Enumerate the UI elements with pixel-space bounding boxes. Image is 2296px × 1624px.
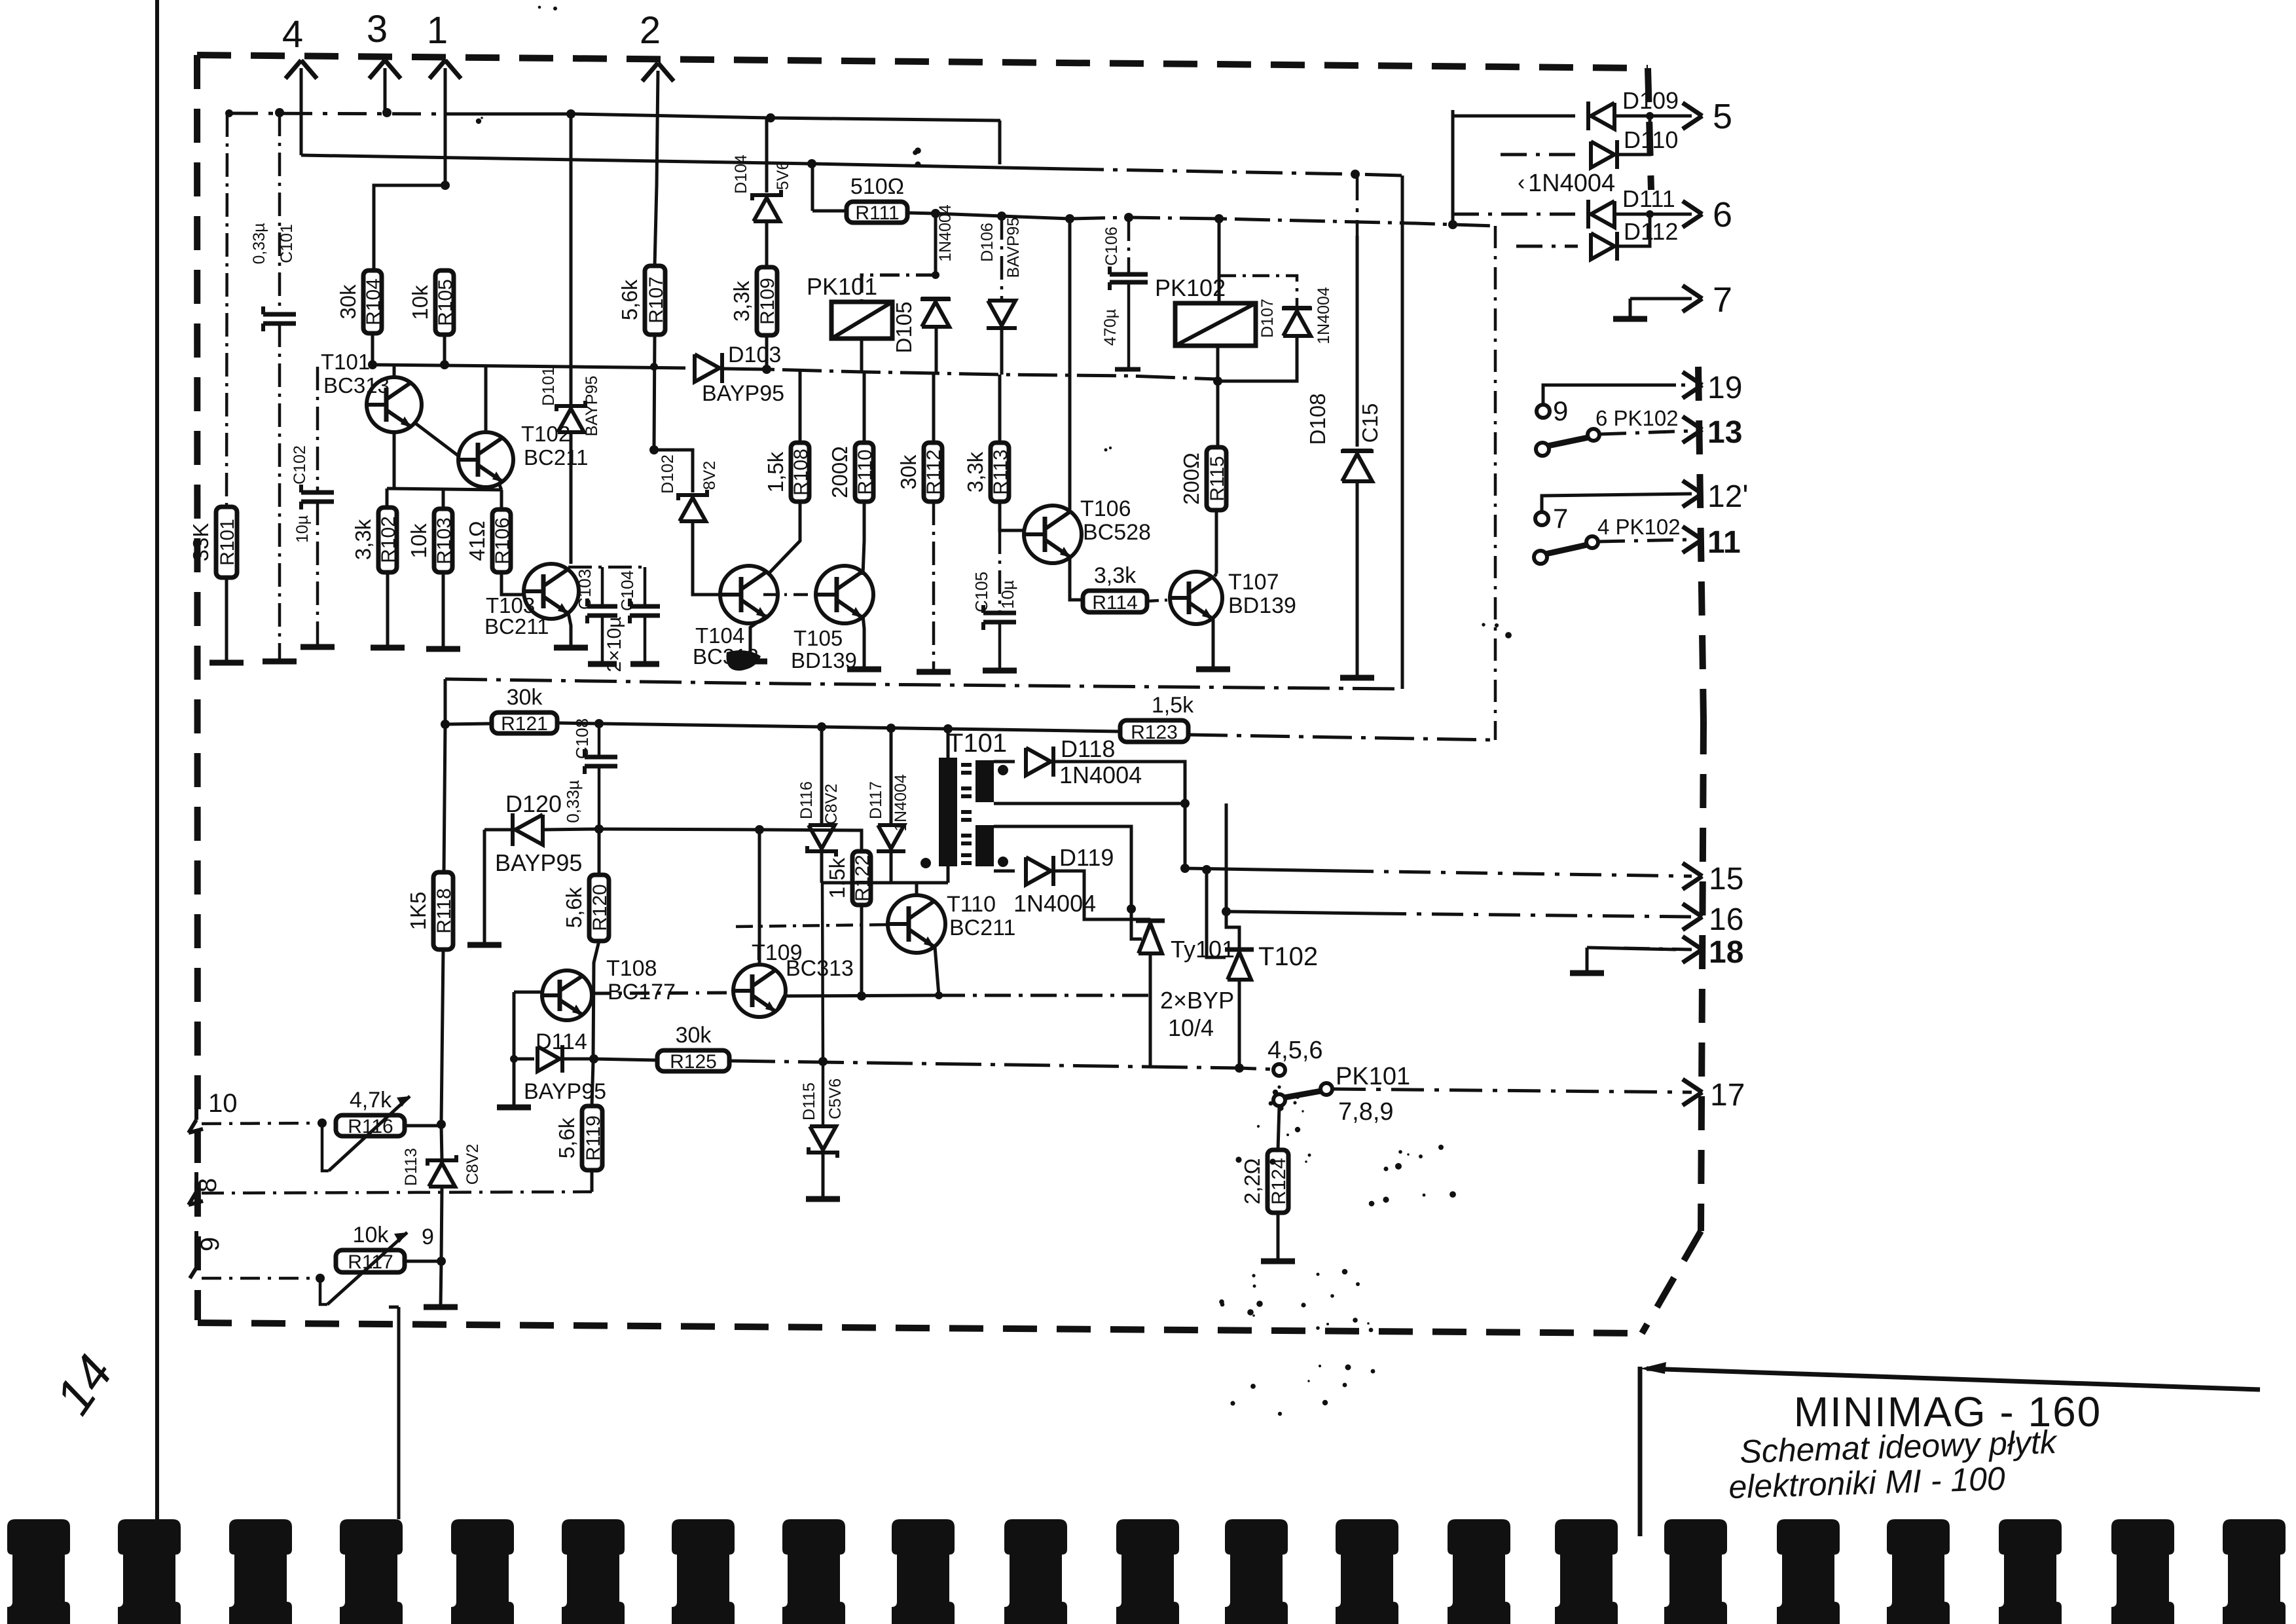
svg-text:C104: C104 <box>617 570 637 611</box>
wire T107 emitter <box>1212 618 1215 668</box>
wire H2 left <box>229 113 445 114</box>
wire D109 anode <box>1453 115 1575 118</box>
wire pin10 <box>202 1123 322 1124</box>
svg-text:D119: D119 <box>1059 844 1114 871</box>
wire base rail <box>387 489 501 490</box>
node R111 riser <box>807 159 816 168</box>
arrow pin17 <box>1683 1079 1702 1092</box>
wire T104 collector <box>767 502 800 575</box>
arrow pin15 <box>1683 863 1702 876</box>
svg-text:T105: T105 <box>793 626 843 650</box>
wire H5 dd <box>1070 217 1495 226</box>
svg-text:3,3k: 3,3k <box>963 451 987 492</box>
svg-text:‹: ‹ <box>1518 170 1525 195</box>
svg-text:6: 6 <box>1713 195 1732 234</box>
ground R124 <box>1261 1259 1295 1264</box>
wire R113 top <box>998 375 1002 443</box>
svg-text:30k: 30k <box>896 454 920 490</box>
wire Ty101 cathode <box>1149 953 1152 1068</box>
wire T102 cathode <box>1238 980 1241 1068</box>
svg-text:1: 1 <box>427 9 448 52</box>
ground C101 <box>263 659 297 665</box>
svg-text:5: 5 <box>1713 97 1732 136</box>
svg-text:D117: D117 <box>867 781 885 819</box>
resistor R113 <box>991 443 1009 502</box>
wire D118 out <box>1054 762 1185 868</box>
wire R101 gnd <box>225 578 228 661</box>
wire R102 top <box>386 489 389 507</box>
svg-text:3,3k: 3,3k <box>1094 563 1137 588</box>
zener D115 <box>810 1126 836 1150</box>
wire D101 column <box>570 114 573 406</box>
node D118 sec join <box>1180 799 1190 808</box>
svg-text:BC528: BC528 <box>1083 520 1151 545</box>
svg-text:BD139: BD139 <box>791 648 857 673</box>
capacitor C101 <box>263 312 296 317</box>
svg-text:6 PK102: 6 PK102 <box>1595 406 1679 430</box>
svg-text:D101: D101 <box>539 367 558 406</box>
resistor R122 <box>852 851 871 905</box>
svg-text:C15: C15 <box>1358 403 1382 443</box>
transistor T110 <box>888 895 945 953</box>
node D101 tap <box>566 109 575 119</box>
wire T101-T102 link <box>415 423 458 456</box>
node PK102 tap <box>1214 214 1224 223</box>
svg-text:R107: R107 <box>646 276 667 323</box>
wire D106 column <box>1000 216 1004 300</box>
wire T101 base drop <box>393 432 396 489</box>
svg-text:BAYP95: BAYP95 <box>702 381 784 406</box>
svg-text:PK101: PK101 <box>807 273 877 300</box>
diode D117 <box>878 825 904 849</box>
svg-text:0,33µ: 0,33µ <box>563 780 583 823</box>
wire pin15 <box>1185 868 1342 871</box>
svg-text:10µ: 10µ <box>293 515 312 543</box>
svg-text:3,3k: 3,3k <box>729 280 754 322</box>
resistor R125 <box>657 1050 729 1071</box>
ground C102 <box>301 644 335 650</box>
svg-text:R124: R124 <box>1268 1158 1290 1205</box>
svg-text:R108: R108 <box>790 449 812 496</box>
arrow pin16 <box>1683 904 1702 917</box>
polarity dot primary <box>920 858 931 868</box>
svg-text:5V6: 5V6 <box>774 161 792 190</box>
svg-text:15: 15 <box>1709 862 1743 896</box>
node T110 emitter <box>935 991 943 999</box>
diode D111 <box>1591 201 1614 227</box>
svg-text:R115: R115 <box>1207 456 1228 502</box>
ground T107 <box>1196 667 1230 673</box>
wire D110 anode <box>1501 153 1578 157</box>
ground R101 <box>210 660 244 666</box>
wire primary top <box>947 729 950 758</box>
svg-text:18: 18 <box>1709 935 1743 970</box>
node pin6 <box>1646 210 1654 218</box>
switch PK102-11 <box>1534 551 1547 564</box>
svg-text:33K: 33K <box>189 523 213 562</box>
wire D119 out <box>1054 871 1150 919</box>
node D105 tap <box>931 209 940 218</box>
node pin1-R104 <box>441 181 450 190</box>
svg-text:C105: C105 <box>972 572 991 612</box>
svg-text:9: 9 <box>1553 396 1568 426</box>
polarity dot lower <box>998 857 1008 867</box>
wire pin4 <box>300 68 303 155</box>
svg-text:T110: T110 <box>947 892 996 917</box>
wire pin7 <box>1630 297 1692 301</box>
arrow pin7 <box>1683 286 1702 299</box>
zener D104 <box>754 198 780 221</box>
resistor R101 <box>216 507 237 578</box>
svg-text:R120: R120 <box>589 884 611 931</box>
svg-text:8V2: 8V2 <box>701 461 719 490</box>
svg-text:3: 3 <box>367 8 388 50</box>
ground D113 <box>424 1304 458 1310</box>
wire R121 left <box>445 724 492 724</box>
ground T103 <box>554 645 588 651</box>
wire pin5 <box>1616 115 1692 118</box>
svg-text:12': 12' <box>1707 479 1749 514</box>
svg-text:10k: 10k <box>407 523 431 559</box>
wire H2 right <box>445 114 1000 120</box>
wire pin9 <box>202 1277 320 1280</box>
node T106 tap <box>1065 214 1074 223</box>
transistor T102 <box>458 432 513 487</box>
wire D113 bottom <box>441 1187 442 1260</box>
wire C108 drop <box>598 724 601 757</box>
resistor R112 <box>924 443 942 502</box>
ground D114 <box>497 1105 531 1111</box>
svg-text:7: 7 <box>1553 503 1568 534</box>
svg-text:BC313: BC313 <box>786 956 854 981</box>
svg-text:C108: C108 <box>572 718 592 759</box>
svg-text:D116: D116 <box>797 781 816 819</box>
svg-text:2: 2 <box>640 9 661 52</box>
border bottom <box>198 1323 1642 1333</box>
capacitor C108 <box>585 755 617 760</box>
svg-text:0,33µ: 0,33µ <box>250 223 268 264</box>
wire D106 bottom <box>1000 329 1004 375</box>
wire R124 gnd <box>1277 1213 1280 1260</box>
arrow pin13 <box>1683 416 1702 430</box>
zener D101 <box>558 409 584 432</box>
wire T105 collector <box>863 502 864 575</box>
svg-text:BD139: BD139 <box>1228 593 1296 618</box>
svg-text:R119: R119 <box>583 1115 604 1161</box>
svg-text:10µ: 10µ <box>998 580 1017 609</box>
node R116-R118 <box>437 1120 446 1129</box>
wire pin1 <box>444 68 447 185</box>
svg-text:4: 4 <box>282 13 303 56</box>
arrow pin5 <box>1683 103 1702 116</box>
wire secondary gather <box>822 881 948 885</box>
resistor R121 <box>492 712 557 733</box>
svg-text:1,5k: 1,5k <box>763 451 788 492</box>
svg-text:R106: R106 <box>492 517 513 564</box>
ground R112 <box>917 669 951 675</box>
wire T106 emitter <box>1070 558 1083 600</box>
wire D104-R109 <box>765 221 769 267</box>
svg-text:T102: T102 <box>1258 942 1318 971</box>
wire R119 top <box>592 1061 593 1106</box>
transistor T109 <box>733 965 786 1017</box>
wire R103 top <box>442 490 445 509</box>
smudge T104 <box>726 650 761 671</box>
pin 4 arrow <box>285 60 301 79</box>
film sprockets <box>7 1519 70 1624</box>
wire R107 bottom <box>654 335 655 449</box>
arrow pin12 <box>1683 481 1702 494</box>
resistor R124 <box>1267 1150 1288 1213</box>
resistor R105 <box>435 270 454 335</box>
svg-text:R125: R125 <box>670 1051 717 1073</box>
node pin5 <box>1646 112 1654 120</box>
svg-text:1N4004: 1N4004 <box>1315 287 1333 344</box>
wire pin13 <box>1600 431 1692 434</box>
wire R106 top <box>500 490 503 509</box>
svg-text:1N4004: 1N4004 <box>1528 170 1615 197</box>
polarity dot upper <box>998 765 1008 775</box>
wire R112 top <box>932 373 936 443</box>
wire D108 column <box>1356 174 1359 236</box>
ground pin7 <box>1613 316 1647 322</box>
svg-text:T108: T108 <box>606 956 657 981</box>
svg-text:D105: D105 <box>892 302 916 354</box>
wire Ty gate <box>1131 909 1142 939</box>
wire C102 gnd <box>316 502 319 646</box>
wire D105 column <box>934 213 938 275</box>
arrow pin6 <box>1683 201 1702 214</box>
resistor R111 <box>847 202 907 223</box>
diode D114 <box>538 1046 560 1071</box>
node Ty gate col <box>1127 904 1136 913</box>
node D114 out <box>589 1054 598 1063</box>
svg-text:4,7k: 4,7k <box>350 1088 392 1113</box>
node T109 coll tap <box>755 825 764 834</box>
resistor R110 <box>855 443 873 502</box>
wire R116 right <box>405 1124 441 1128</box>
diode D106 <box>988 301 1015 325</box>
svg-text:D114: D114 <box>536 1029 587 1054</box>
node T101 primary tap <box>943 724 953 733</box>
wire R115 bottom <box>1215 510 1218 574</box>
svg-text:4,5,6: 4,5,6 <box>1267 1037 1323 1064</box>
node D116 tap <box>817 722 826 731</box>
terminal PK101 out <box>1321 1083 1332 1095</box>
wire T108 base col <box>513 992 516 1058</box>
wire pin2 <box>657 71 658 185</box>
svg-text:7,8,9: 7,8,9 <box>1338 1098 1394 1126</box>
wire D113 gnd <box>441 1261 441 1306</box>
wire T109 base dash <box>736 925 886 927</box>
svg-text:R103: R103 <box>433 517 455 564</box>
svg-text:10/4: 10/4 <box>1168 1014 1214 1041</box>
wire D114 line a <box>514 1058 534 1061</box>
wire T102 gate col <box>1207 870 1226 957</box>
svg-text:200Ω: 200Ω <box>1179 452 1203 505</box>
node H2 corner <box>225 109 233 117</box>
node R118 top <box>441 720 450 729</box>
ground C104 <box>630 661 659 667</box>
svg-text:D108: D108 <box>1305 394 1330 445</box>
wire T108-T109 <box>591 993 733 993</box>
svg-text:41Ω: 41Ω <box>465 521 489 561</box>
switch arm PK101 <box>1285 1091 1321 1098</box>
ground C103 <box>588 661 617 667</box>
wire T105 emitter <box>863 616 864 668</box>
svg-text:C8V2: C8V2 <box>822 784 841 825</box>
svg-text:D118: D118 <box>1061 735 1115 762</box>
wire C108-D120 <box>598 766 601 828</box>
wire C104 drop <box>644 567 647 605</box>
node D115 tap <box>818 1057 828 1066</box>
wire R122 top <box>860 830 864 851</box>
resistor R108 <box>791 443 809 502</box>
wire C105 gnd <box>998 622 1002 669</box>
wire D107 bracket top <box>1219 276 1297 306</box>
svg-text:D104: D104 <box>732 155 750 194</box>
wire T102 collector <box>484 365 488 432</box>
trimmer R117 <box>320 1278 327 1304</box>
transistor T106 <box>1024 506 1082 563</box>
wire R107-D102 <box>654 450 693 492</box>
transistor T108 <box>542 970 592 1020</box>
node C101 tap <box>275 108 284 117</box>
ground R102 <box>371 645 405 651</box>
svg-text:10: 10 <box>208 1089 238 1118</box>
wire D111 anode <box>1453 213 1575 216</box>
wire D110 up <box>1618 116 1650 155</box>
svg-text:5,6k: 5,6k <box>555 1117 579 1158</box>
node D114 anode <box>510 1055 518 1063</box>
wire R122 bottom <box>860 905 864 996</box>
svg-text:BAYP95: BAYP95 <box>495 849 582 876</box>
wire pin6 <box>1616 213 1692 216</box>
wire C101 column <box>278 113 282 313</box>
pin 2 arrow <box>642 63 658 81</box>
wire C105 column <box>998 530 1002 612</box>
svg-text:30k: 30k <box>676 1023 712 1048</box>
svg-text:D113: D113 <box>402 1148 420 1186</box>
wire PK101 bottom <box>860 339 864 372</box>
ground D120 <box>467 942 501 948</box>
resistor R114 <box>1083 591 1147 612</box>
svg-text:D107: D107 <box>1258 299 1277 338</box>
wire T107 collector <box>1214 574 1216 576</box>
wire D114 gnd stub <box>513 1061 516 1106</box>
diode D112 <box>1591 233 1614 259</box>
transformer core marks <box>961 763 972 767</box>
diode D107 <box>1283 311 1311 336</box>
svg-text:1N4004: 1N4004 <box>1059 762 1142 788</box>
pin 1 arrow <box>429 60 445 79</box>
svg-text:9: 9 <box>422 1225 434 1249</box>
wire D108 gnd <box>1356 482 1359 676</box>
node T102 cath <box>1235 1063 1244 1073</box>
wire T102 anode <box>1226 803 1239 950</box>
svg-text:5,6k: 5,6k <box>562 887 586 928</box>
svg-text:16: 16 <box>1709 902 1743 937</box>
svg-text:R121: R121 <box>501 713 548 735</box>
svg-text:BAYP95: BAYP95 <box>583 376 601 437</box>
svg-text:T106: T106 <box>1080 496 1131 521</box>
wire sec2 top <box>994 826 1131 909</box>
resistor R119 <box>582 1106 602 1170</box>
wire T101 collector <box>393 365 396 377</box>
transistor T103 <box>524 564 579 619</box>
wire R103 gnd <box>442 572 445 648</box>
wire pin17 <box>1333 1089 1692 1092</box>
wire pin16 <box>1226 912 1375 913</box>
wire C102 column <box>316 367 319 492</box>
wire T109 collector <box>758 830 761 965</box>
wire R105 bottom <box>443 335 446 365</box>
transistor T101 <box>367 377 422 432</box>
resistor R102 <box>378 507 397 572</box>
svg-text:C5V6: C5V6 <box>826 1079 845 1120</box>
wire right dd column <box>1494 226 1497 740</box>
ground pin18 <box>1570 970 1604 976</box>
node R117-D113 <box>437 1257 446 1266</box>
node pin15 left <box>1180 864 1190 873</box>
node W16 tap <box>1222 907 1231 916</box>
svg-text:D120: D120 <box>505 790 562 817</box>
wire R102 gnd <box>386 572 390 646</box>
wire PK102 bottom <box>1216 346 1220 447</box>
wire pin18 gnd <box>1586 948 1589 972</box>
wire diode feed <box>1451 110 1455 225</box>
zener D113 <box>429 1163 455 1187</box>
diode D103 <box>695 354 720 382</box>
wire pin8 <box>202 1192 592 1193</box>
wire pin19 <box>1543 385 1676 405</box>
wire T102 emitter <box>499 483 501 490</box>
wire PK102 top <box>1218 219 1221 303</box>
wire R123 right <box>1188 735 1495 740</box>
thyristor T102 <box>1225 948 1254 952</box>
wire R117 right <box>405 1260 441 1263</box>
switch PK102-13 <box>1536 443 1549 456</box>
svg-text:R112: R112 <box>923 449 945 495</box>
wire pin18 <box>1587 948 1676 950</box>
svg-text:1,5k: 1,5k <box>1152 693 1194 718</box>
wire R119 bottom <box>591 1170 594 1192</box>
relay PK101 <box>831 302 892 339</box>
wire R120 top <box>598 833 601 875</box>
wire D115 column <box>822 883 823 1061</box>
resistor R106 <box>492 509 511 572</box>
wire rail riser <box>1401 175 1404 689</box>
svg-text:R109: R109 <box>757 278 778 325</box>
wire rail R3 drop <box>444 679 447 723</box>
svg-text:30k: 30k <box>507 685 543 710</box>
svg-text:5,6k: 5,6k <box>617 279 642 320</box>
svg-text:3,3k: 3,3k <box>351 519 375 560</box>
resistor R104 <box>363 270 382 333</box>
resistor R117 <box>336 1250 405 1272</box>
svg-text:1N4004: 1N4004 <box>936 204 955 262</box>
relay PK102 <box>1175 303 1256 346</box>
resistor R109 <box>757 267 777 335</box>
node pin3 junction <box>382 108 392 117</box>
node D120 out <box>594 824 604 834</box>
svg-text:D109: D109 <box>1622 87 1679 114</box>
fold line <box>389 1306 399 1309</box>
svg-text:R111: R111 <box>855 202 899 224</box>
wire L5 <box>557 723 1120 731</box>
wire T109 emitter line <box>776 995 939 1011</box>
svg-text:4 PK102: 4 PK102 <box>1597 515 1681 539</box>
